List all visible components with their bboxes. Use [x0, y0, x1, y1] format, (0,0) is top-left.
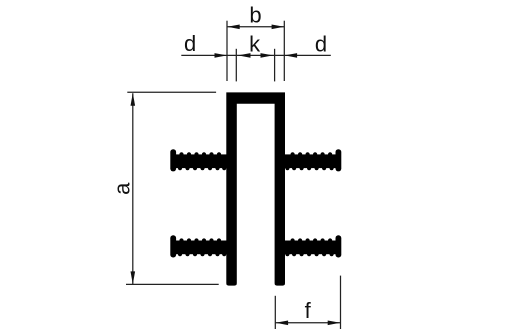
extension line b right: [283, 21, 285, 81]
extension line b left: [226, 21, 228, 81]
extension line f right: [340, 276, 342, 329]
flange upper-right ribs bottom: [285, 166, 333, 170]
svg-text:d: d: [184, 31, 196, 56]
arrow k right: [261, 53, 274, 58]
svg-text:k: k: [249, 32, 261, 57]
dimension line a: [132, 93, 134, 284]
flange upper-right ribs top: [291, 152, 333, 156]
flange lower-left ribs bottom: [178, 252, 226, 256]
extension line a top: [127, 91, 216, 93]
flange lower-right bar: [284, 241, 339, 255]
flange upper-right bar: [284, 154, 339, 168]
arrow a bottom: [131, 271, 136, 284]
arrow d right: [285, 53, 298, 58]
arrow f right: [328, 321, 341, 326]
flange lower-left bar: [173, 241, 228, 255]
extension line f left: [274, 296, 276, 329]
flange lower-right ribs top: [291, 238, 333, 242]
svg-text:f: f: [305, 298, 312, 323]
dimension line b: [227, 26, 284, 28]
flange upper-left end cap: [170, 149, 176, 171]
flange lower-right end cap: [336, 235, 342, 257]
flange lower-left end cap: [170, 235, 176, 257]
extension line k right: [274, 49, 276, 82]
arrow b right: [272, 25, 285, 30]
flange upper-left ribs bottom: [178, 166, 226, 170]
arrow a top: [131, 93, 136, 106]
dimension line f: [275, 322, 340, 324]
flange lower-left ribs top: [179, 238, 221, 242]
svg-text:a: a: [110, 182, 135, 195]
arrow f left: [276, 321, 289, 326]
profile U body: [226, 92, 285, 285]
extension line a bottom: [126, 283, 219, 285]
arrow d left: [215, 53, 228, 58]
arrow k left: [238, 53, 251, 58]
arrow b left: [227, 25, 240, 30]
dimension line d k d: [181, 54, 330, 56]
extension line k left: [235, 49, 237, 82]
flange upper-left bar: [173, 154, 228, 168]
svg-text:b: b: [249, 3, 261, 28]
flange lower-right ribs bottom: [285, 252, 333, 256]
flange upper-right end cap: [336, 149, 342, 171]
flange upper-left ribs top: [179, 152, 221, 156]
svg-text:d: d: [315, 31, 327, 56]
